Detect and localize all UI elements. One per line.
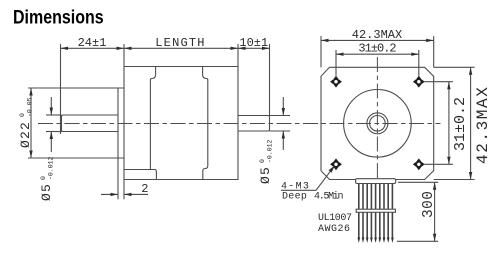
front view: square flange with chamfered corners bbox=[321, 67, 434, 179]
extension line: body rear face bbox=[237, 44, 239, 67]
wire exit grommet bbox=[356, 179, 396, 184]
dimension line LENGTH bbox=[124, 47, 238, 49]
lead wires bundle bbox=[358, 184, 394, 244]
extension lines 42.3MAX top bbox=[320, 36, 322, 67]
svg-text:-0.012: -0.012 bbox=[267, 139, 274, 163]
svg-text:Ø5: Ø5 bbox=[39, 183, 54, 201]
label 42.3MAX right (rotated) bbox=[474, 86, 492, 164]
label O5 0/-0.012 front (rotated) bbox=[39, 156, 55, 201]
side view: front end-cap / stack boundary (left) bbox=[150, 67, 155, 170]
mounting hole bottom-right (M3) bbox=[413, 158, 425, 170]
label O22 0/-0.05 (rotated) bbox=[18, 97, 34, 148]
svg-text:Dimensions: Dimensions bbox=[13, 6, 104, 28]
extension lines for rear shaft O5 bbox=[270, 115, 291, 117]
svg-text:31±0.2: 31±0.2 bbox=[452, 97, 469, 151]
side view: bottom-left ledge bbox=[124, 170, 156, 180]
leader line to bottom-left hole bbox=[281, 166, 334, 190]
side view: rear end-cap / stack boundary (right) bbox=[203, 67, 208, 180]
svg-text:Ø22: Ø22 bbox=[18, 121, 33, 148]
dimension line O5 front (outside arrows) bbox=[50, 97, 52, 115]
svg-text:-0.05: -0.05 bbox=[27, 97, 34, 117]
svg-text:Ø5: Ø5 bbox=[258, 166, 273, 184]
dimension line 300 bbox=[434, 182, 436, 241]
svg-text:2: 2 bbox=[141, 182, 148, 196]
cable tie band bbox=[356, 209, 395, 212]
label O5 0/-0.012 rear (rotated) bbox=[258, 139, 274, 184]
pilot boss (O22 x 2mm) bbox=[118, 88, 124, 158]
shaft chamfer circle bbox=[367, 113, 388, 134]
svg-text:4.5Min: 4.5Min bbox=[314, 191, 344, 203]
extension lines for O22 boss bbox=[28, 87, 118, 89]
svg-text:-0.012: -0.012 bbox=[48, 156, 55, 180]
svg-text:0: 0 bbox=[40, 176, 47, 180]
svg-text:42.3MAX: 42.3MAX bbox=[352, 28, 402, 42]
svg-text:31±0.2: 31±0.2 bbox=[358, 42, 396, 56]
rear shaft (O5 x 10) bbox=[238, 116, 270, 132]
dimension line 31±0.2 right bbox=[448, 82, 450, 165]
svg-text:24±1: 24±1 bbox=[78, 36, 107, 50]
svg-text:Deep: Deep bbox=[282, 192, 307, 203]
svg-text:0: 0 bbox=[19, 113, 26, 117]
dimension line 42.3MAX right bbox=[470, 67, 472, 179]
svg-text:LENGTH: LENGTH bbox=[155, 36, 205, 50]
extension lines 31±0.2 top (to holes) bbox=[335, 50, 337, 77]
vertical centerline front view bbox=[376, 57, 378, 179]
svg-text:AWG26: AWG26 bbox=[318, 224, 351, 235]
extension lines for front shaft O5 bbox=[46, 114, 62, 116]
svg-text:UL1007: UL1007 bbox=[318, 213, 352, 224]
dimension line 42.3MAX top bbox=[321, 39, 434, 41]
label 31±0.2 right (rotated) bbox=[452, 97, 469, 151]
label 300 (rotated) bbox=[421, 191, 437, 218]
front shaft (O5 x 24) bbox=[62, 115, 119, 132]
dimension line O5 rear (outside arrows) bbox=[282, 97, 284, 116]
dimension line 24±1 bbox=[61, 47, 125, 49]
pilot circle O22 bbox=[344, 90, 412, 158]
mounting hole bottom-left (M3) bbox=[330, 158, 342, 170]
svg-text:0: 0 bbox=[259, 159, 266, 163]
dimension line 31±0.2 top bbox=[336, 53, 419, 55]
mounting hole top-right (M3) bbox=[413, 76, 425, 88]
extension lines for boss thickness 2 bbox=[117, 158, 119, 199]
shaft circle O5 bbox=[370, 116, 386, 132]
dimension line 10±1 bbox=[238, 47, 270, 49]
svg-text:300: 300 bbox=[421, 191, 437, 218]
dimension line O22 bbox=[30, 88, 32, 158]
side view: motor body outline bbox=[124, 67, 238, 180]
extension line: flange face bbox=[123, 44, 125, 67]
extension line: rear shaft end bbox=[269, 44, 271, 116]
svg-text:10±1: 10±1 bbox=[239, 36, 268, 50]
svg-text:42.3MAX: 42.3MAX bbox=[474, 86, 492, 164]
mounting hole top-left (M3) bbox=[330, 76, 342, 88]
horizontal centerline through shafts and body bbox=[38, 123, 441, 125]
extension line: shaft end bbox=[60, 44, 62, 134]
dimension line 2 (outside arrows) bbox=[101, 193, 118, 195]
extension lines 42.3MAX right bbox=[434, 66, 475, 68]
extension lines 31±0.2 right (from holes) bbox=[424, 81, 453, 83]
extension lines 300 bbox=[398, 181, 438, 183]
